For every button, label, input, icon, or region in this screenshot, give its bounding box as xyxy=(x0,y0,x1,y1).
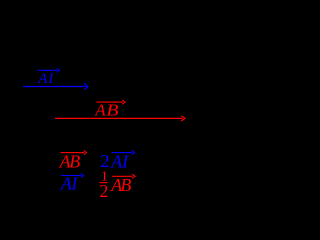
svg-text:2: 2 xyxy=(99,181,108,200)
formula line 1: overbar arrow of AI xyxy=(112,151,135,155)
formula line 2: overbar arrow of AB xyxy=(112,174,135,178)
svg-text:I: I xyxy=(47,71,54,87)
formula line 2: fraction bar (red) xyxy=(100,182,108,184)
svg-text:=: = xyxy=(89,172,99,191)
overbar arrow of AI label xyxy=(38,68,60,72)
svg-text:B: B xyxy=(106,100,119,119)
overbar arrow of AB label xyxy=(97,100,126,104)
svg-text:I: I xyxy=(70,174,78,194)
formula line 2: vector AB (red) xyxy=(110,175,131,195)
blue vector arrow (A to I) xyxy=(23,83,88,90)
svg-text:A: A xyxy=(94,100,106,119)
formula line 1: vector AI (blue) xyxy=(110,151,129,171)
svg-text:A: A xyxy=(37,71,48,87)
svg-text:I: I xyxy=(51,48,58,64)
svg-text:2: 2 xyxy=(100,151,110,171)
svg-text:B: B xyxy=(120,175,131,195)
svg-text:I: I xyxy=(121,151,129,171)
svg-text:=: = xyxy=(89,150,99,169)
red vector arrow (A to B) xyxy=(55,116,185,121)
svg-text:B: B xyxy=(88,48,97,64)
formula line 1: vector AB (red) xyxy=(59,151,81,171)
vector label AB (red, middle) xyxy=(94,100,119,119)
formula line 1: overbar arrow of AB xyxy=(61,151,87,155)
vector label AI (blue, top) xyxy=(37,71,54,87)
formula line 2: overbar arrow of AI xyxy=(61,173,84,177)
svg-text:A: A xyxy=(17,48,28,64)
svg-text:B: B xyxy=(69,151,80,171)
formula line 2: vector AI (blue) xyxy=(60,174,79,194)
